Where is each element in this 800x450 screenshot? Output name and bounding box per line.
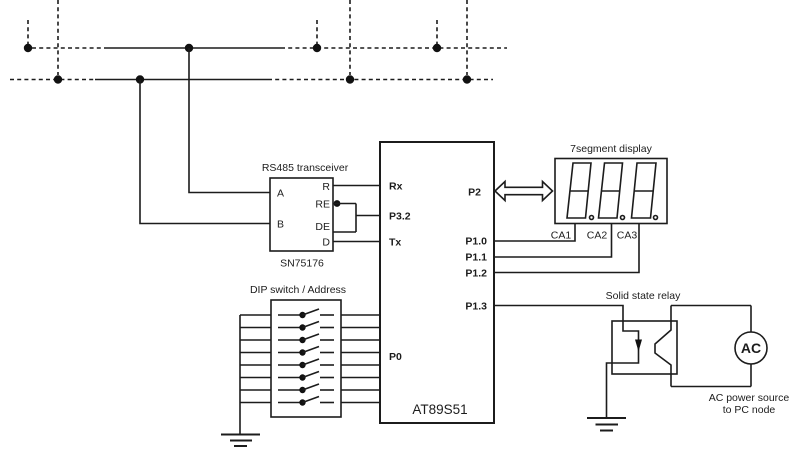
op-amp U1 RS485 transceiver box <box>270 178 333 251</box>
wire P1.3 to SSR input <box>494 306 639 419</box>
drop line tap 2 <box>349 0 351 75</box>
svg-text:B: B <box>277 219 284 231</box>
digit 3 outline <box>632 163 657 218</box>
ground SSR <box>587 418 626 431</box>
node stub A4 <box>436 20 438 44</box>
wire to P3.2 <box>356 215 380 217</box>
wire bus B to transceiver pin B <box>140 80 270 224</box>
svg-text:P1.2: P1.2 <box>465 268 487 280</box>
svg-text:7segment display: 7segment display <box>570 143 652 155</box>
AC source circle <box>735 332 767 364</box>
wire R to Rx <box>333 185 380 187</box>
wire CA3 to P1.2 <box>494 224 639 273</box>
wire AC loop right bottom <box>750 364 752 387</box>
svg-text:P1.1: P1.1 <box>465 252 487 264</box>
svg-text:CA3: CA3 <box>617 230 638 242</box>
DIP common bus wire <box>239 315 241 435</box>
wire bus A to transceiver pin A <box>189 48 270 193</box>
svg-text:A: A <box>277 188 284 200</box>
wire AC loop right top <box>750 306 752 333</box>
svg-text:CA2: CA2 <box>587 230 608 242</box>
node B4 <box>463 75 471 83</box>
svg-text:AC: AC <box>741 340 761 356</box>
svg-text:Rx: Rx <box>389 181 403 193</box>
switch row 5 <box>240 359 380 368</box>
SSR box <box>612 321 677 374</box>
switch row 1 <box>240 309 380 318</box>
digit 2 decimal point <box>621 216 625 220</box>
svg-text:P0: P0 <box>389 351 402 363</box>
switch row 4 <box>240 347 380 356</box>
node stub A1 <box>27 20 29 44</box>
digit 1 decimal point <box>590 216 594 220</box>
node B3 <box>346 75 354 83</box>
node A2 <box>185 44 193 52</box>
wire CA1 to P1.0 <box>494 224 575 242</box>
svg-text:P1.3: P1.3 <box>465 301 487 313</box>
svg-text:AC power source: AC power source <box>709 392 790 404</box>
svg-text:R: R <box>322 181 330 193</box>
P2 bus double arrow <box>495 182 553 201</box>
wire AC loop bottom <box>671 386 751 388</box>
svg-text:DIP switch / Address: DIP switch / Address <box>250 284 346 296</box>
svg-text:Solid state relay: Solid state relay <box>606 290 681 302</box>
digit 2 outline <box>599 163 623 218</box>
node A3 <box>313 44 321 52</box>
digit 2 middle segment <box>602 190 620 192</box>
wire AC loop top <box>671 305 751 307</box>
svg-text:SN75176: SN75176 <box>280 258 324 270</box>
svg-text:RE: RE <box>315 199 330 211</box>
svg-text:P2: P2 <box>468 187 481 199</box>
node B1 <box>54 75 62 83</box>
svg-text:DE: DE <box>315 221 330 233</box>
bus line B solid segment <box>95 79 268 81</box>
node RE junction <box>334 200 341 207</box>
wire DE <box>333 231 356 233</box>
node A4 <box>433 44 441 52</box>
SSR LED arrow <box>635 340 642 352</box>
drop line tap 1 <box>57 0 59 75</box>
svg-text:D: D <box>322 237 330 249</box>
bus line A dashed left segment <box>32 47 106 49</box>
svg-text:Tx: Tx <box>389 237 401 249</box>
node stub A3 <box>316 20 318 44</box>
switch row 3 <box>240 334 380 343</box>
digit 3 middle segment <box>634 190 653 192</box>
switch row 6 <box>240 372 380 381</box>
drop line tap 3 <box>466 0 468 75</box>
MCU U2 AT89S51 box <box>380 142 494 423</box>
bus line A dashed right segment <box>281 47 507 49</box>
switch row 8 <box>240 397 380 406</box>
wire D to Tx <box>333 241 380 243</box>
bus line B dashed right segment <box>268 79 493 81</box>
svg-text:P1.0: P1.0 <box>465 236 487 248</box>
7-segment display box <box>555 159 667 224</box>
svg-text:P3.2: P3.2 <box>389 211 411 223</box>
bus line B dashed left segment <box>10 79 95 81</box>
svg-text:RS485 transceiver: RS485 transceiver <box>262 162 349 174</box>
svg-text:to PC node: to PC node <box>723 404 776 416</box>
switch row 2 <box>240 322 380 331</box>
ground DIP <box>221 435 260 447</box>
wire CA2 to P1.1 <box>494 224 612 258</box>
SSR output chevron wire <box>655 306 671 387</box>
wire RE right <box>333 203 356 205</box>
node B2 <box>136 75 144 83</box>
DIP switch box <box>271 300 341 417</box>
switch row 7 <box>240 384 380 393</box>
svg-text:CA1: CA1 <box>551 230 572 242</box>
wire RE-DE vertical <box>355 204 357 233</box>
digit 3 decimal point <box>654 216 658 220</box>
node A1 <box>24 44 32 52</box>
digit 1 middle segment <box>570 190 588 192</box>
bus line A solid segment <box>106 47 281 49</box>
digit 1 outline <box>567 163 591 218</box>
svg-text:AT89S51: AT89S51 <box>412 402 467 417</box>
